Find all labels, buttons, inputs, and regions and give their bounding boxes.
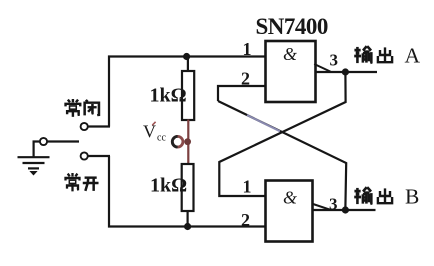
wire pole to ground	[34, 142, 40, 158]
power terminal Vcc circle	[172, 136, 183, 147]
svg-text:1kΩ: 1kΩ	[150, 175, 187, 197]
svg-text:&: &	[283, 188, 297, 208]
node bottom junction (R2 bottom)	[184, 223, 191, 230]
label 常闭 (normally closed)	[66, 99, 81, 117]
switch pole circle	[40, 138, 47, 145]
wire U1A pin 2 input from cross-coupling	[218, 86, 266, 101]
svg-text:A: A	[405, 44, 421, 68]
ground	[18, 157, 50, 175]
node output B junction	[342, 206, 349, 213]
label 输出 B (output B)	[354, 187, 371, 204]
label 输出 A (output A)	[354, 46, 371, 63]
svg-text:1: 1	[243, 39, 252, 59]
wire top rail from switch to gate U1A pin 1	[109, 57, 266, 127]
resistor R1	[182, 71, 194, 120]
contact circle normally closed	[81, 123, 88, 130]
NAND gate U1B body	[266, 181, 313, 242]
svg-text:&: &	[283, 44, 297, 64]
wire R2 bottom lead	[187, 211, 189, 227]
node output A junction	[342, 68, 349, 75]
wire cross diagonal from output A down to U1B pin 1	[219, 72, 345, 196]
node Vcc junction dot	[184, 138, 191, 145]
wire output A	[316, 71, 378, 73]
wire normally-open contact stub	[88, 155, 110, 157]
svg-text:cc: cc	[157, 133, 166, 144]
svg-text:1kΩ: 1kΩ	[150, 85, 187, 107]
wire normally-closed contact stub	[88, 125, 110, 127]
contact circle normally open	[81, 152, 88, 159]
label 常开 (normally open)	[66, 173, 80, 191]
svg-text:2: 2	[241, 210, 250, 230]
wire R1 top lead	[187, 57, 189, 72]
svg-text:1: 1	[243, 177, 252, 197]
svg-text:B: B	[405, 185, 419, 209]
wire output B	[313, 209, 376, 211]
wire switch pole arm	[47, 140, 79, 142]
wire Vcc red segment between R1 and R2	[187, 120, 189, 165]
resistor R2	[182, 164, 194, 211]
NAND gate U1A body	[266, 41, 316, 102]
node top junction (R1 top)	[183, 53, 190, 60]
wire bottom rail from switch to gate U1B pin 2	[109, 156, 266, 227]
wire cross diagonal lavender scan tint	[247, 115, 280, 131]
svg-text:SN7400: SN7400	[256, 14, 328, 39]
svg-text:3: 3	[330, 51, 339, 70]
wire U1B output wedge	[313, 204, 331, 210]
wire U1A output wedge	[314, 64, 330, 72]
wire cross diagonal from U1A pin2 corner down to output B	[218, 101, 346, 207]
